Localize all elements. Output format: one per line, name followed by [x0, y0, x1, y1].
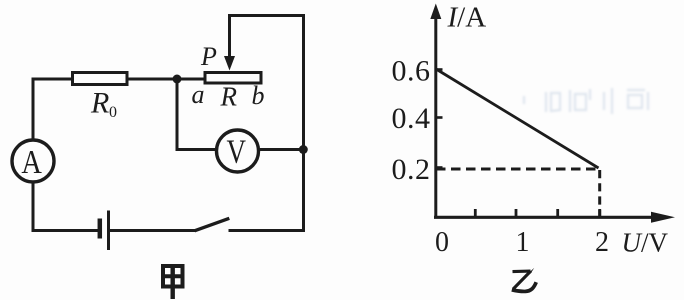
wire voltmeter left — [176, 148, 217, 151]
svg-text:0: 0 — [435, 227, 449, 258]
svg-text:1: 1 — [516, 227, 530, 258]
svg-text:R: R — [220, 82, 238, 112]
wire voltmeter branch vertical — [176, 79, 179, 151]
y tick 0.6 — [436, 68, 443, 71]
node junction dot left — [173, 75, 182, 84]
label yi (乙) — [512, 268, 536, 292]
svg-text:b: b — [252, 81, 265, 110]
ammeter A — [12, 140, 54, 182]
I-U line — [436, 69, 599, 168]
svg-text:0.4: 0.4 — [392, 102, 431, 135]
wire left vertical lower — [32, 183, 35, 232]
graph y-axis — [434, 10, 437, 218]
node junction dot right — [299, 145, 308, 154]
voltmeter V — [217, 130, 259, 172]
wire left vertical upper — [32, 78, 35, 140]
wire slider top to right — [228, 14, 305, 17]
graph x-axis — [434, 216, 662, 219]
svg-text:I/A: I/A — [447, 2, 487, 34]
faint scan bleed-through ghosts — [524, 88, 648, 114]
y tick 0.2 — [436, 166, 443, 169]
x tick 1.0 — [515, 209, 518, 217]
wire switch right — [229, 229, 306, 232]
wire top-left horizontal — [32, 78, 74, 81]
wire right vertical — [302, 14, 305, 232]
wire resistor to rheostat — [127, 78, 205, 81]
svg-text:P: P — [200, 42, 217, 71]
svg-text:a: a — [192, 80, 205, 109]
rheostat R box — [205, 73, 261, 84]
label jia (甲) — [163, 266, 183, 299]
dashed vertical at 2 — [598, 170, 601, 216]
x tick 0.5 — [474, 209, 477, 217]
dashed horizontal 0.2 — [436, 168, 598, 171]
svg-text:0: 0 — [109, 104, 117, 121]
wire voltmeter right — [259, 148, 304, 151]
slider P arrow — [228, 16, 231, 61]
x tick 2.0 — [598, 209, 601, 217]
y tick 0.4 — [436, 116, 443, 119]
svg-text:A: A — [21, 144, 42, 181]
svg-text:0.2: 0.2 — [392, 153, 431, 186]
svg-text:R: R — [90, 87, 109, 120]
svg-text:0.6: 0.6 — [392, 55, 431, 88]
svg-text:2: 2 — [595, 227, 609, 258]
x tick 1.5 — [556, 209, 559, 217]
battery long plate — [107, 211, 110, 251]
resistor R0 — [73, 73, 128, 85]
wire bottom left — [32, 229, 100, 232]
switch blade — [195, 218, 230, 231]
svg-text:U/V: U/V — [622, 228, 669, 258]
battery short plate — [98, 219, 103, 239]
wire battery to switch — [109, 229, 196, 232]
svg-text:V: V — [227, 134, 247, 171]
